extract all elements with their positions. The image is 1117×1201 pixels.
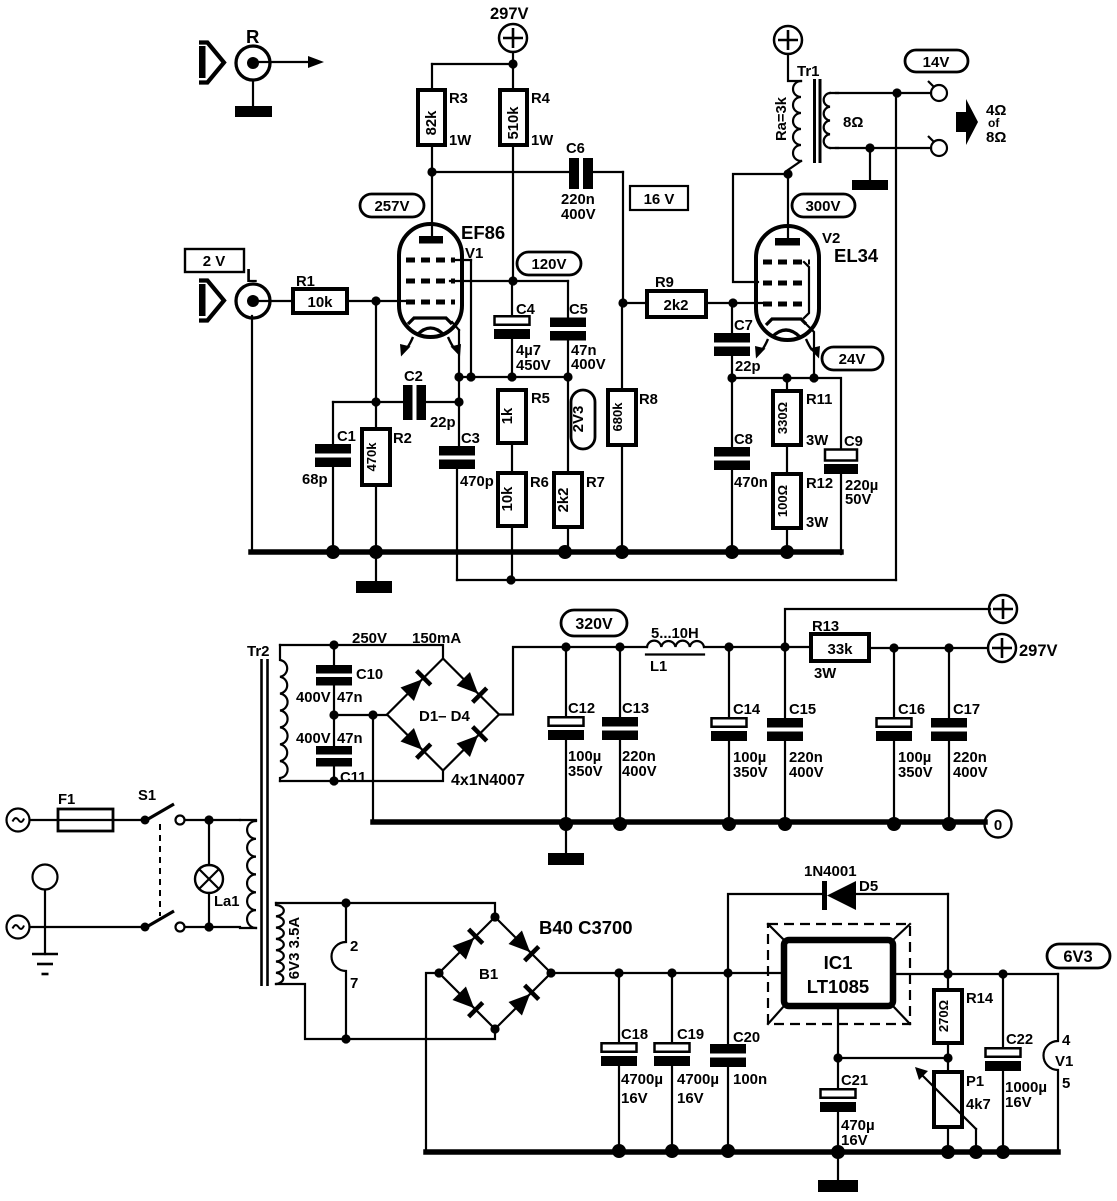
bridge rectifier D1-D4 xyxy=(387,659,525,790)
svg-text:R14: R14 xyxy=(966,991,994,1007)
svg-text:F1: F1 xyxy=(58,792,75,808)
svg-text:L1: L1 xyxy=(650,659,667,675)
ground 6V3 xyxy=(818,1152,858,1192)
wire B1 plus to IC1 xyxy=(551,968,782,977)
tube V1 EF86 xyxy=(399,222,505,357)
resistor R2 xyxy=(362,429,412,552)
svg-text:C6: C6 xyxy=(566,141,585,157)
node 257V label xyxy=(360,194,424,217)
node 2V label xyxy=(185,249,244,272)
svg-text:470k: 470k xyxy=(364,442,379,472)
svg-text:R13: R13 xyxy=(812,619,839,635)
ground symbol below R2 xyxy=(356,555,392,593)
capacitor C20 xyxy=(710,973,767,1158)
capacitor C16 xyxy=(876,648,933,831)
svg-text:4700µ: 4700µ xyxy=(677,1071,719,1088)
svg-text:V1: V1 xyxy=(1055,1053,1073,1070)
node 120V label xyxy=(517,252,581,275)
node 320V label xyxy=(561,610,627,636)
svg-text:5: 5 xyxy=(1062,1075,1070,1092)
svg-text:3W: 3W xyxy=(806,515,828,531)
svg-text:C14: C14 xyxy=(733,702,761,718)
svg-text:C12: C12 xyxy=(568,701,595,717)
wire C2 node xyxy=(333,301,464,446)
svg-text:220n: 220n xyxy=(953,750,987,766)
svg-text:R9: R9 xyxy=(655,275,674,291)
svg-text:400V: 400V xyxy=(953,765,988,781)
svg-text:100n: 100n xyxy=(733,1071,767,1088)
resistor R11 xyxy=(773,378,832,449)
power terminal 0V xyxy=(985,811,1012,838)
svg-text:350V: 350V xyxy=(568,764,603,780)
svg-text:297V: 297V xyxy=(490,5,529,23)
capacitor C12 xyxy=(548,642,603,831)
svg-text:400V: 400V xyxy=(571,357,606,373)
svg-text:14V: 14V xyxy=(923,54,950,71)
node 16V label xyxy=(630,186,688,210)
svg-text:3W: 3W xyxy=(814,666,836,682)
svg-text:Tr1: Tr1 xyxy=(797,63,820,80)
tube V2 EL34 xyxy=(755,226,879,359)
ground PSU xyxy=(548,824,584,865)
node 14V label xyxy=(905,50,968,72)
svg-text:D5: D5 xyxy=(859,878,878,895)
svg-text:220n: 220n xyxy=(789,750,823,766)
wire 250V bottom xyxy=(280,770,443,786)
svg-text:2 V: 2 V xyxy=(203,253,226,270)
mains terminal upper xyxy=(7,809,30,832)
ground speaker xyxy=(852,148,888,190)
svg-text:50V: 50V xyxy=(845,492,871,508)
output arrow speaker xyxy=(956,99,978,145)
svg-text:R8: R8 xyxy=(639,392,658,408)
svg-text:220n: 220n xyxy=(622,749,656,765)
svg-text:La1: La1 xyxy=(214,894,240,910)
svg-text:R7: R7 xyxy=(586,475,605,491)
svg-text:B1: B1 xyxy=(479,966,498,983)
svg-text:0: 0 xyxy=(994,817,1002,834)
svg-text:8Ω: 8Ω xyxy=(843,114,863,131)
resistor R12 xyxy=(773,445,833,552)
svg-text:2V3: 2V3 xyxy=(570,406,587,433)
svg-text:22p: 22p xyxy=(735,359,761,375)
svg-text:120V: 120V xyxy=(531,256,566,273)
svg-text:510k: 510k xyxy=(506,106,522,140)
wire R jack to right arrow xyxy=(258,56,324,68)
wire plus to Tr1 primary xyxy=(788,54,801,81)
switch link dashed xyxy=(159,824,161,916)
svg-text:47n: 47n xyxy=(337,690,363,706)
resistor R3 xyxy=(418,90,471,149)
switch S1 lower pole xyxy=(141,911,185,932)
wire C5 node to R7 xyxy=(567,377,569,473)
svg-text:P1: P1 xyxy=(966,1074,984,1090)
wire 6V3 winding bottom xyxy=(276,984,495,1039)
svg-text:16V: 16V xyxy=(677,1090,704,1107)
resistor R14 xyxy=(934,974,994,1058)
power terminal +297V output xyxy=(988,634,1058,662)
regulator IC1 LT1085 xyxy=(768,924,910,1024)
capacitor C5 xyxy=(550,281,606,373)
svg-text:257V: 257V xyxy=(374,198,409,215)
node 2V3 label xyxy=(570,390,595,449)
wire to fuse xyxy=(30,819,58,821)
svg-text:C9: C9 xyxy=(844,434,863,450)
wire 297V rail xyxy=(432,52,518,90)
wire to switch lower xyxy=(30,926,145,928)
svg-text:2k2: 2k2 xyxy=(663,297,688,314)
wire bridge minus node xyxy=(329,710,387,822)
resistor R6 xyxy=(498,473,549,580)
svg-text:4µ7: 4µ7 xyxy=(516,343,541,359)
svg-text:24V: 24V xyxy=(839,351,866,368)
svg-text:C20: C20 xyxy=(733,1030,760,1046)
svg-text:2k2: 2k2 xyxy=(556,488,572,513)
node 4ohm of 8ohm label xyxy=(986,102,1006,146)
svg-text:D1– D4: D1– D4 xyxy=(419,708,471,725)
svg-text:R1: R1 xyxy=(296,274,315,290)
ground R jack xyxy=(235,80,272,117)
capacitor C8 xyxy=(714,378,768,559)
svg-text:400V: 400V xyxy=(296,731,331,747)
svg-text:C21: C21 xyxy=(841,1073,868,1089)
inductor L1 xyxy=(646,626,704,675)
node 300V label xyxy=(792,194,855,217)
capacitor C11 xyxy=(296,715,366,786)
svg-text:400V: 400V xyxy=(296,690,331,706)
svg-text:C1: C1 xyxy=(337,429,356,445)
lamp La1 xyxy=(195,820,240,927)
resistor R1 xyxy=(293,274,347,313)
wire triode strap g2 xyxy=(733,174,788,282)
wire secondary top to jack xyxy=(836,88,931,97)
svg-text:R11: R11 xyxy=(806,392,832,408)
wire cathode node line xyxy=(459,340,573,382)
capacitor C2 xyxy=(403,369,456,431)
output jack top xyxy=(928,81,947,101)
transformer Tr2 xyxy=(240,643,303,986)
svg-text:3W: 3W xyxy=(806,433,828,449)
svg-text:470n: 470n xyxy=(734,475,768,491)
input arrow R xyxy=(199,42,224,83)
capacitor C18 xyxy=(601,973,663,1158)
transformer Tr1 xyxy=(774,63,863,174)
wire D5 to output node xyxy=(947,894,949,974)
capacitor C4 xyxy=(494,281,551,374)
capacitor C15 xyxy=(767,647,824,831)
power terminal + upper xyxy=(989,595,1017,623)
RCA jack L xyxy=(236,284,270,318)
svg-text:B40 C3700: B40 C3700 xyxy=(539,917,633,938)
input arrow L xyxy=(199,280,224,321)
node 24V label xyxy=(822,347,883,370)
svg-text:4x1N4007: 4x1N4007 xyxy=(451,772,525,789)
capacitor C10 xyxy=(296,645,383,715)
wire R4 bottom to 120V node xyxy=(512,145,514,281)
svg-text:5...10H: 5...10H xyxy=(651,626,699,642)
svg-text:16V: 16V xyxy=(621,1090,648,1107)
svg-text:82k: 82k xyxy=(424,110,440,135)
resistor R9 xyxy=(618,275,763,317)
capacitor C22 xyxy=(985,974,1047,1159)
svg-text:320V: 320V xyxy=(575,616,613,633)
svg-text:S1: S1 xyxy=(138,788,156,804)
resistor R7 xyxy=(554,473,605,552)
RCA jack R xyxy=(236,46,270,80)
svg-text:16 V: 16 V xyxy=(644,191,675,208)
wire V1 g3 to cathode node xyxy=(452,260,476,382)
svg-text:270Ω: 270Ω xyxy=(936,1000,951,1032)
wire 297V branch up xyxy=(785,609,990,647)
svg-text:400V: 400V xyxy=(561,207,596,223)
capacitor C21 xyxy=(820,1058,875,1159)
svg-text:IC1: IC1 xyxy=(824,952,853,973)
svg-text:300V: 300V xyxy=(805,198,840,215)
svg-text:C13: C13 xyxy=(622,701,649,717)
svg-text:350V: 350V xyxy=(898,765,933,781)
svg-text:C16: C16 xyxy=(898,702,925,718)
svg-text:C4: C4 xyxy=(516,302,536,318)
svg-text:100Ω: 100Ω xyxy=(775,485,790,517)
diode D5 xyxy=(804,863,948,910)
capacitor C1 xyxy=(302,429,356,552)
svg-text:1W: 1W xyxy=(449,133,471,149)
svg-text:4: 4 xyxy=(1062,1032,1071,1049)
svg-text:LT1085: LT1085 xyxy=(807,976,869,997)
svg-text:R3: R3 xyxy=(449,91,468,107)
svg-text:R2: R2 xyxy=(393,431,412,447)
fuse F1 xyxy=(58,792,113,831)
svg-text:16V: 16V xyxy=(841,1132,868,1149)
earth ground symbol xyxy=(32,954,58,974)
svg-text:C15: C15 xyxy=(789,702,816,718)
svg-text:C11: C11 xyxy=(340,770,366,786)
svg-text:C18: C18 xyxy=(621,1027,648,1043)
wire plate node to C6 xyxy=(432,171,569,173)
svg-text:47n: 47n xyxy=(337,731,363,747)
wire 250V top xyxy=(280,640,443,659)
wire 24V node xyxy=(727,373,841,449)
wire switch to Tr2 primary lower xyxy=(185,922,240,931)
svg-text:R12: R12 xyxy=(806,476,833,492)
node 6V3 label xyxy=(1047,944,1110,968)
svg-text:EF86: EF86 xyxy=(461,222,505,243)
power terminal + Tr1 top xyxy=(774,26,802,54)
switch S1 upper pole xyxy=(138,788,185,825)
wire 6V3 winding top xyxy=(276,898,495,917)
svg-text:350V: 350V xyxy=(733,765,768,781)
svg-text:330Ω: 330Ω xyxy=(775,402,790,434)
bridge rectifier B1 xyxy=(434,912,632,1033)
svg-text:1k: 1k xyxy=(500,407,516,424)
svg-text:7: 7 xyxy=(350,975,358,992)
svg-text:100µ: 100µ xyxy=(898,750,931,766)
ground bus bottom xyxy=(426,1149,1058,1155)
svg-text:450V: 450V xyxy=(516,358,551,374)
wire R1 to V1 grid xyxy=(347,296,406,305)
wire IC1 adj xyxy=(833,1006,952,1063)
svg-text:10k: 10k xyxy=(500,486,516,511)
svg-text:C22: C22 xyxy=(1006,1032,1033,1048)
wire B1 minus to bottom bus xyxy=(426,973,439,1152)
wire switch to Tr2 primary xyxy=(185,815,240,824)
power terminal +297V top xyxy=(499,24,527,52)
svg-text:6V3 3.5A: 6V3 3.5A xyxy=(286,917,303,980)
resistor R4 xyxy=(500,90,553,149)
wire L jack to R1 xyxy=(258,300,293,302)
svg-text:C10: C10 xyxy=(356,667,383,683)
svg-text:2: 2 xyxy=(350,938,358,955)
svg-text:EL34: EL34 xyxy=(834,245,879,266)
mains terminal lower xyxy=(7,916,30,939)
svg-text:400V: 400V xyxy=(789,765,824,781)
capacitor C7 xyxy=(714,303,761,378)
resistor R8 xyxy=(608,303,658,552)
svg-text:680k: 680k xyxy=(610,402,625,432)
svg-text:C5: C5 xyxy=(569,302,588,318)
wire IC1 output xyxy=(893,969,1058,978)
wire R13 to 297V terminal xyxy=(869,643,988,652)
wire C6 to R9 node xyxy=(593,172,623,303)
svg-text:C3: C3 xyxy=(461,431,480,447)
svg-text:4k7: 4k7 xyxy=(966,1097,991,1113)
capacitor C13 xyxy=(602,642,657,831)
wire D5 branch xyxy=(728,894,821,973)
svg-text:C19: C19 xyxy=(677,1027,704,1043)
capacitor C3 xyxy=(439,431,494,580)
wire heater tap V2 pins 2 7 xyxy=(332,903,359,1044)
wire R3 bottom to plate node xyxy=(427,145,436,240)
ground bus top section xyxy=(251,545,841,559)
resistor R13 xyxy=(811,619,869,682)
wire V1 g2 to 120V node xyxy=(450,276,568,285)
ground bus PSU xyxy=(373,819,985,825)
wire heater tap V1 pins 4 5 xyxy=(1044,974,1074,1152)
svg-text:470p: 470p xyxy=(460,474,494,490)
svg-text:297V: 297V xyxy=(1019,642,1058,660)
svg-text:400V: 400V xyxy=(622,764,657,780)
wire L jack ground drop to bus xyxy=(251,316,253,552)
wire feedback line xyxy=(457,575,896,584)
svg-text:of: of xyxy=(988,116,1000,130)
svg-text:R5: R5 xyxy=(531,391,550,407)
svg-text:16V: 16V xyxy=(1005,1094,1032,1111)
svg-text:6V3: 6V3 xyxy=(1063,948,1092,966)
resistor R5 xyxy=(498,390,550,473)
svg-text:C2: C2 xyxy=(404,369,423,385)
capacitor C9 xyxy=(824,434,878,554)
svg-text:220n: 220n xyxy=(561,192,595,208)
svg-text:C17: C17 xyxy=(953,702,980,718)
capacitor C17 xyxy=(931,648,988,831)
svg-text:R6: R6 xyxy=(530,475,549,491)
node 250V 150mA label xyxy=(352,630,461,647)
capacitor C14 xyxy=(711,647,768,831)
svg-text:R4: R4 xyxy=(531,91,551,107)
svg-text:10k: 10k xyxy=(307,294,333,311)
svg-text:100µ: 100µ xyxy=(733,750,766,766)
wire V2 cathode to 24V node xyxy=(806,324,819,383)
svg-text:33k: 33k xyxy=(827,641,853,658)
svg-text:1N4001: 1N4001 xyxy=(804,863,857,880)
output jack bottom xyxy=(928,136,947,156)
svg-text:100µ: 100µ xyxy=(568,749,601,765)
svg-text:C8: C8 xyxy=(734,432,753,448)
svg-text:R: R xyxy=(246,26,259,47)
svg-text:68p: 68p xyxy=(302,472,328,488)
svg-text:Tr2: Tr2 xyxy=(247,643,270,660)
earth terminal xyxy=(33,865,58,955)
wire bridge plus to 320V node xyxy=(499,647,647,715)
wire L1 to R13 xyxy=(704,642,811,651)
wire secondary bottom to jack xyxy=(836,143,931,152)
capacitor C19 xyxy=(654,973,719,1158)
wire feedback drop from secondary xyxy=(895,93,897,580)
capacitor C6 xyxy=(561,141,596,223)
svg-text:1W: 1W xyxy=(531,133,553,149)
svg-text:4700µ: 4700µ xyxy=(621,1071,663,1088)
wire V1 cathode drop xyxy=(452,322,464,382)
svg-text:8Ω: 8Ω xyxy=(986,129,1006,146)
wire fuse to switch xyxy=(113,819,145,821)
svg-text:22p: 22p xyxy=(430,415,456,431)
svg-text:C7: C7 xyxy=(734,318,753,334)
potentiometer P1 xyxy=(915,1058,991,1159)
svg-text:Ra=3k: Ra=3k xyxy=(774,96,790,141)
wire Tr1 to V2 plate node xyxy=(783,169,792,240)
